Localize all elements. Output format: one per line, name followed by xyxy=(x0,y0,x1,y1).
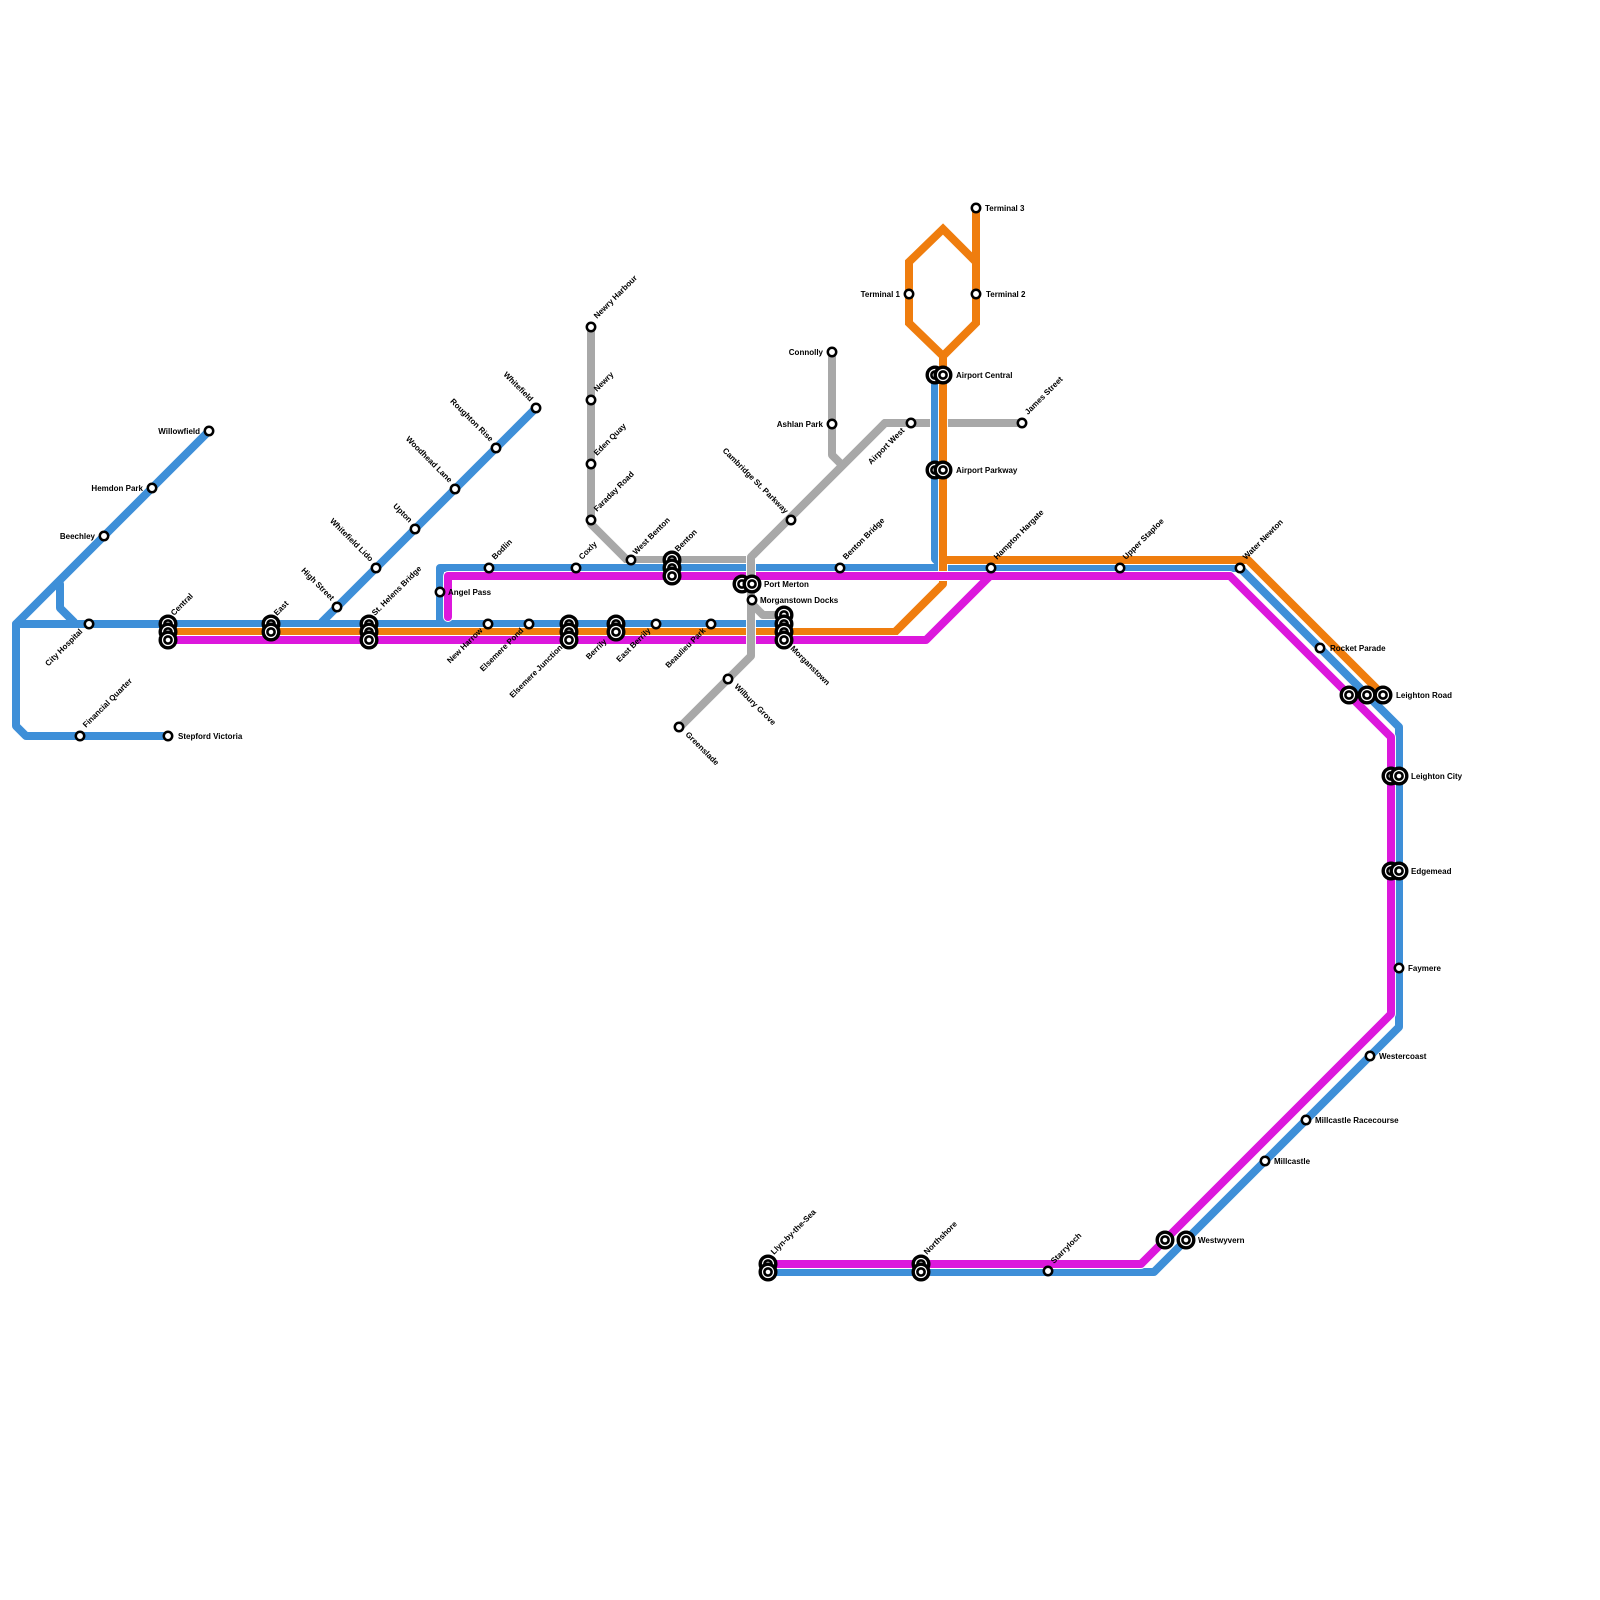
svg-text:Terminal 1: Terminal 1 xyxy=(861,290,901,299)
interchange Westwyvern xyxy=(1157,1232,1173,1248)
interchange Morganstown xyxy=(776,607,792,623)
svg-text:Airport Parkway: Airport Parkway xyxy=(956,466,1018,475)
station Whitefield Lido xyxy=(372,564,380,572)
station Millcastle Racecourse xyxy=(1302,1116,1310,1124)
svg-text:Willowfield: Willowfield xyxy=(158,427,200,436)
interchange Port Merton xyxy=(734,576,750,592)
station Eden Quay xyxy=(587,460,595,468)
station Cambridge St. Parkway xyxy=(787,516,795,524)
interchange Central xyxy=(160,616,176,632)
station Millcastle xyxy=(1261,1157,1269,1165)
station Newry Harbour xyxy=(587,323,595,331)
station Coxly xyxy=(572,564,580,572)
station Elsemere Pond xyxy=(525,620,533,628)
station Terminal 2 xyxy=(972,290,980,298)
interchange East xyxy=(263,616,279,632)
interchange Leighton Road xyxy=(1341,687,1357,703)
svg-text:Stepford Victoria: Stepford Victoria xyxy=(178,732,243,741)
station Water Newton xyxy=(1236,564,1244,572)
station Financial Quarter xyxy=(76,732,84,740)
station Ashlan Park xyxy=(828,420,836,428)
magenta line xyxy=(168,576,1391,1264)
svg-text:Terminal 3: Terminal 3 xyxy=(985,204,1025,213)
interchange Leighton City xyxy=(1383,768,1399,784)
interchange Berrily xyxy=(608,616,624,632)
station Rocket Parade xyxy=(1316,644,1324,652)
station Beechley xyxy=(100,532,108,540)
station Whitefield xyxy=(532,404,540,412)
interchange Elsemere Junction xyxy=(561,616,577,632)
interchange Airport Parkway xyxy=(927,462,943,478)
svg-text:Morganstown Docks: Morganstown Docks xyxy=(760,596,839,605)
svg-text:Leighton Road: Leighton Road xyxy=(1396,691,1452,700)
station City Hospital xyxy=(85,620,93,628)
svg-text:Westwyvern: Westwyvern xyxy=(1198,1236,1245,1245)
svg-text:Airport Central: Airport Central xyxy=(956,371,1012,380)
station Roughton Rise xyxy=(492,444,500,452)
svg-text:Terminal 2: Terminal 2 xyxy=(986,290,1026,299)
station Newry xyxy=(587,396,595,404)
blue line xyxy=(16,375,1399,1272)
station Faymere xyxy=(1395,964,1403,972)
svg-text:Millcastle: Millcastle xyxy=(1274,1157,1311,1166)
station Greenslade xyxy=(675,723,683,731)
station Bodlin xyxy=(485,564,493,572)
station Upper Staploe xyxy=(1116,564,1124,572)
svg-text:Edgemead: Edgemead xyxy=(1411,867,1452,876)
station Airport West xyxy=(907,419,915,427)
gray line (over part) xyxy=(680,552,786,724)
interchange Airport Central xyxy=(927,367,943,383)
interchange Benton xyxy=(664,552,680,568)
svg-text:Hemdon Park: Hemdon Park xyxy=(91,484,143,493)
interchange Llyn-by-the-Sea xyxy=(760,1256,776,1272)
station High Street xyxy=(333,603,341,611)
station Starryloch xyxy=(1044,1267,1052,1275)
station Stepford Victoria xyxy=(164,732,172,740)
orange line xyxy=(168,208,1384,696)
station Morganstown Docks xyxy=(748,596,756,604)
station New Harrow xyxy=(484,620,492,628)
station Willowfield xyxy=(205,427,213,435)
gray line (under part) xyxy=(591,327,1022,560)
station Wilbury Grove xyxy=(724,675,732,683)
station Westercoast xyxy=(1366,1052,1374,1060)
station West Benton xyxy=(627,556,635,564)
svg-text:Beechley: Beechley xyxy=(60,532,96,541)
svg-text:Rocket Parade: Rocket Parade xyxy=(1330,644,1386,653)
station Woodhead Lane xyxy=(451,485,459,493)
station Terminal 3 xyxy=(972,204,980,212)
station Upton xyxy=(411,525,419,533)
station East Berrily xyxy=(652,620,660,628)
station Connolly xyxy=(828,348,836,356)
svg-text:Faymere: Faymere xyxy=(1408,964,1441,973)
station Benton Bridge xyxy=(836,564,844,572)
interchange Northshore xyxy=(913,1256,929,1272)
interchange St Helens Bridge xyxy=(361,616,377,632)
station Terminal 1 xyxy=(905,290,913,298)
station Hampton Hargate xyxy=(987,564,995,572)
svg-text:Angel Pass: Angel Pass xyxy=(448,588,492,597)
station James Street xyxy=(1018,419,1026,427)
svg-text:Millcastle Racecourse: Millcastle Racecourse xyxy=(1315,1116,1399,1125)
svg-text:Ashlan Park: Ashlan Park xyxy=(777,420,824,429)
svg-text:Connolly: Connolly xyxy=(789,348,824,357)
svg-text:Westercoast: Westercoast xyxy=(1379,1052,1427,1061)
interchange Edgemead xyxy=(1383,863,1399,879)
svg-text:Port Merton: Port Merton xyxy=(764,580,809,589)
station Angel Pass xyxy=(436,588,444,596)
station Faraday Road xyxy=(587,516,595,524)
svg-text:Leighton City: Leighton City xyxy=(1411,772,1463,781)
station Beaulieu Park xyxy=(707,620,715,628)
station Hemdon Park xyxy=(148,484,156,492)
